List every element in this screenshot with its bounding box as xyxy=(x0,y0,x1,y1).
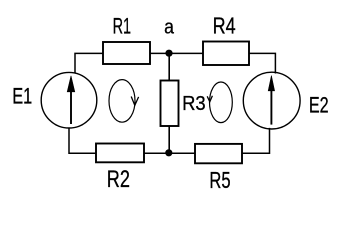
wire node a down to R3 top xyxy=(168,53,170,80)
resistor R4 xyxy=(203,42,249,66)
mesh current loop arrow (left mesh) xyxy=(109,80,139,123)
wire from E1 top to R1 left xyxy=(75,53,104,73)
wire R2 left to E1 bottom xyxy=(69,128,96,153)
node a junction dot xyxy=(165,50,172,57)
svg-text:R5: R5 xyxy=(209,167,230,193)
mesh current loop arrow (right mesh) xyxy=(207,82,232,123)
resistor R3 xyxy=(161,81,179,127)
resistor R1 xyxy=(103,42,150,64)
svg-text:E2: E2 xyxy=(309,93,329,118)
wire bottom node to R2 right xyxy=(144,152,169,154)
bottom node junction dot xyxy=(165,149,172,156)
wire E2 bottom to R5 right xyxy=(242,128,270,153)
wire R1 to node a xyxy=(150,52,169,54)
resistor R2 xyxy=(96,144,144,163)
wire R4 right to E2 top xyxy=(249,53,275,73)
source E2 arrow xyxy=(268,76,274,125)
source E1 arrow xyxy=(67,76,75,124)
svg-text:R1: R1 xyxy=(113,14,132,39)
source E2 circle xyxy=(243,72,300,129)
svg-text:R4: R4 xyxy=(213,13,236,39)
wire node a to R4 left xyxy=(169,52,203,54)
svg-text:R2: R2 xyxy=(107,166,130,193)
svg-text:a: a xyxy=(164,17,175,39)
svg-text:E1: E1 xyxy=(12,83,32,108)
wire R5 left to bottom node xyxy=(169,152,195,154)
resistor R5 xyxy=(195,144,242,163)
wire R3 bottom to bottom node xyxy=(168,126,170,153)
svg-text:R3: R3 xyxy=(182,93,206,115)
source E1 circle xyxy=(41,72,97,128)
